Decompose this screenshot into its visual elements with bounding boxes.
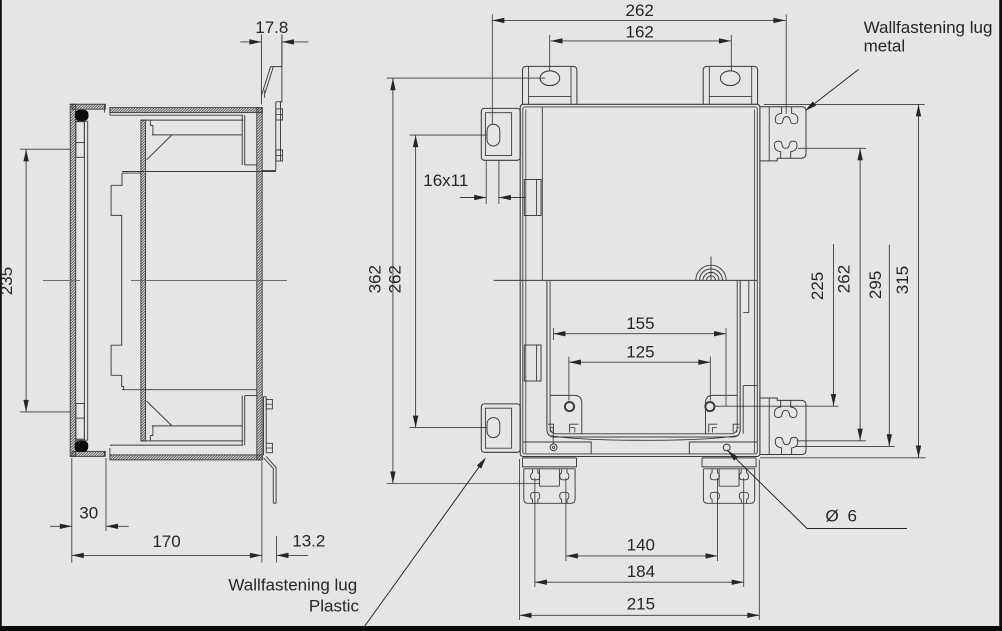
svg-text:Plastic: Plastic [309, 596, 360, 615]
dimension 17.8 top [240, 41, 261, 43]
side view: interior mounting plate (hatched) [141, 120, 146, 441]
side view: chassis stepped profile [111, 173, 124, 390]
front view: foot profile left [522, 458, 576, 467]
front view: metal lug profile (bottom right) [760, 398, 806, 455]
side view: bolts on top plate [276, 109, 283, 120]
side view: door/lid wall (hatched, left) [70, 104, 76, 456]
dimension 16x11 [485, 160, 487, 204]
front view: tray bracket left with hole [550, 395, 582, 433]
page border bottom [0, 626, 1002, 631]
side view: shelf line top [152, 134, 242, 136]
side view: inner lid line B bottom [141, 440, 243, 442]
dimension 140 [566, 555, 718, 557]
svg-text:Wallfastening lug: Wallfastening lug [228, 575, 357, 594]
side view: bolts on bottom plate [266, 400, 272, 409]
side view: rubber seal bottom (black) [75, 441, 89, 452]
front view: tray bracket right with hole [706, 395, 738, 433]
dimension 262 left (vertical) [415, 135, 417, 428]
leader line to metal lug [808, 70, 859, 110]
dimension 235 left [25, 149, 27, 412]
dimension 262 right [859, 148, 861, 440]
front view: body wall inner lines [525, 110, 527, 454]
side view: joint verticals between door and body, bottom [104, 451, 106, 456]
front view: breather bullseye [707, 276, 716, 281]
dimension 162 top [551, 40, 731, 42]
front view: recess bottom sag arc [551, 436, 737, 441]
svg-text:140: 140 [627, 536, 655, 555]
side view: door top cap band [72, 104, 105, 109]
side view: rear inner surface line bottom [122, 389, 257, 391]
side view: shelf diagonal bottom [147, 401, 172, 426]
side view: hinge notch bottom [76, 404, 84, 440]
side view: rubber seal top (black) [75, 110, 89, 121]
front view: centerline / opening top edge [494, 279, 758, 281]
side view: inner lid line B top [141, 119, 243, 121]
label diameter 6 with leader [727, 450, 807, 529]
extension lines below side view [71, 458, 73, 563]
svg-text:170: 170 [152, 532, 180, 551]
svg-text:235: 235 [0, 267, 16, 295]
side view: plastic lug top - slanted hook [262, 67, 271, 96]
side view: plastic lug bottom plate [263, 397, 265, 456]
svg-text:16x11: 16x11 [423, 171, 468, 190]
front view: metal wallfastening lug profile (top right) [760, 107, 806, 161]
leader line to plastic lug [363, 462, 483, 629]
svg-text:225: 225 [808, 272, 827, 300]
side view: door bottom cap band [72, 451, 105, 456]
svg-text:30: 30 [79, 504, 98, 523]
dimension 295 right [888, 245, 890, 447]
side view: lid step to rear wall bottom [245, 395, 257, 397]
front view: foot profile right [702, 458, 756, 467]
side view: lid inner verticals bottom [241, 396, 243, 446]
side view: body bottom wall band [110, 455, 262, 460]
front view: top lug right [703, 66, 757, 105]
dimension 262 top [492, 19, 785, 21]
front view: lower recess opening [547, 281, 740, 437]
side view: bracket step top [150, 120, 153, 135]
side view: lid step to rear wall top [245, 164, 257, 166]
svg-text:162: 162 [626, 22, 654, 41]
svg-text:184: 184 [627, 562, 655, 581]
svg-text:295: 295 [866, 271, 885, 299]
dimension 170 bottom [72, 554, 262, 556]
side view: inner lid line A top [110, 114, 243, 116]
front view: slot lug bottom-left [481, 404, 520, 452]
svg-text:metal: metal [864, 37, 906, 56]
side view: inner lid line A bottom [110, 444, 243, 446]
svg-text:17.8: 17.8 [255, 18, 288, 37]
side view: plastic lug top - wall edge extension [260, 35, 262, 105]
side view: lid inner verticals top [241, 115, 243, 165]
side view: joint verticals between door and body, top [104, 104, 106, 112]
svg-text:Ø 6: Ø 6 [826, 507, 859, 526]
side view: rear inner surface line top [122, 171, 276, 173]
svg-text:362: 362 [366, 265, 385, 293]
dimension 225 right [833, 244, 835, 406]
side view: plastic lug bottom hook strip [266, 456, 276, 467]
dimension 155 [553, 333, 726, 335]
dimension 30 bottom left [50, 525, 72, 527]
front view: inner flange line upper half [541, 107, 543, 280]
front view: slot lug top-left [481, 108, 520, 160]
front view: top lug left hole [540, 71, 560, 86]
dimension 362 left [392, 78, 394, 483]
side view: body top wall band [110, 108, 262, 113]
svg-text:262: 262 [626, 1, 654, 20]
side view: plastic lug top - right edge and plate [281, 35, 282, 161]
svg-text:Wallfastening lug: Wallfastening lug [864, 18, 993, 37]
dimension 315 right [918, 104, 920, 457]
page border right [999, 0, 1002, 631]
svg-text:262: 262 [834, 265, 853, 293]
side view: bracket step bottom [150, 426, 153, 441]
front view: body outer outline [520, 104, 760, 456]
side view: door inner panel lines [83, 121, 85, 440]
side view: body rear wall band (right) [257, 108, 262, 460]
front view: bottom plates with small holes [523, 442, 591, 454]
svg-text:262: 262 [386, 265, 405, 293]
front view: 16x11 slot plate on left edge, lower [524, 345, 541, 381]
page border left [0, 0, 2, 631]
front view: corner L-marks in recess [548, 424, 554, 432]
front view: top lug left [523, 66, 577, 105]
dimension 215 [520, 614, 760, 616]
dimension 13.2 bottom [277, 554, 309, 556]
svg-text:125: 125 [626, 343, 654, 362]
svg-text:315: 315 [893, 266, 912, 294]
front view: right edge step near bottom [748, 281, 750, 313]
front view: 16x11 slot plate on left edge, upper [524, 180, 541, 216]
side view: centerline [43, 280, 80, 282]
svg-text:155: 155 [626, 314, 654, 333]
dimension 184 [535, 581, 744, 583]
side view: hinge notch top [76, 122, 84, 158]
front view: body inner outline [523, 107, 758, 454]
side view: shelf diagonal top [147, 135, 172, 160]
front view: top lug right hole [720, 71, 740, 86]
svg-text:13.2: 13.2 [292, 531, 325, 550]
side view: shelf line bottom [152, 425, 242, 427]
svg-text:215: 215 [627, 595, 655, 614]
dimension 125 [569, 361, 710, 363]
